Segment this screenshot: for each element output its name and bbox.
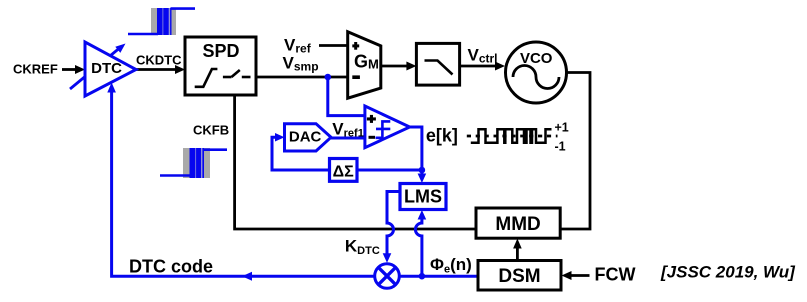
svg-text:FCW: FCW xyxy=(595,265,636,285)
svg-text:ΔΣ: ΔΣ xyxy=(333,163,355,180)
svg-text:[JSSC 2019, Wu]: [JSSC 2019, Wu] xyxy=(660,263,796,282)
svg-text:-1: -1 xyxy=(555,140,566,154)
svg-text:DTC code: DTC code xyxy=(129,257,213,277)
svg-text:+1: +1 xyxy=(555,120,569,134)
svg-text:DTC: DTC xyxy=(91,60,122,77)
svg-text:CKFB: CKFB xyxy=(193,123,229,138)
svg-text:CKREF: CKREF xyxy=(13,62,58,77)
svg-text:CKDTC: CKDTC xyxy=(136,53,182,68)
svg-text:DAC: DAC xyxy=(289,128,322,145)
svg-text:MMD: MMD xyxy=(495,214,540,235)
svg-text:e[k]: e[k] xyxy=(426,126,458,146)
svg-text:LMS: LMS xyxy=(404,187,442,207)
svg-text:SPD: SPD xyxy=(202,41,239,61)
svg-text:Φe(n): Φe(n) xyxy=(430,255,472,276)
svg-text:DSM: DSM xyxy=(498,266,540,287)
